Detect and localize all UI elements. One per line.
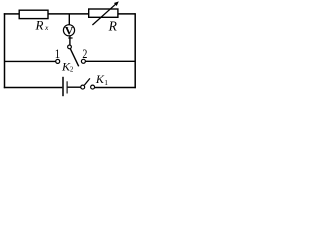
wire middle-right (86, 60, 136, 62)
wire bottom-right (95, 87, 136, 89)
battery short plate (66, 81, 68, 93)
wire top-middle segment (48, 13, 89, 15)
wire middle-left (5, 60, 56, 62)
svg-text:2: 2 (70, 65, 74, 73)
wire left vertical (4, 13, 6, 88)
switch K1 blade (84, 78, 90, 85)
svg-text:V: V (65, 23, 74, 37)
switch K1 right contact (91, 85, 95, 89)
switch K2 pivot (68, 45, 72, 49)
terminal tick (68, 37, 72, 39)
wire top-right segment (118, 13, 136, 15)
svg-text:R: R (35, 17, 44, 32)
svg-text:1: 1 (55, 47, 60, 61)
battery long plate (62, 77, 64, 96)
svg-text:x: x (44, 23, 49, 32)
wire top-left segment (4, 13, 20, 15)
switch K2 blade (70, 49, 78, 67)
voltmeter U1 (63, 25, 74, 36)
wire voltmeter to pivot (69, 36, 71, 45)
node contact 1 (56, 59, 60, 63)
svg-text:R: R (108, 18, 118, 33)
wire right vertical (134, 13, 136, 88)
svg-text:1: 1 (104, 78, 108, 87)
rheostat arrow (92, 4, 116, 25)
resistor Rx (19, 10, 48, 18)
switch K1 left contact (81, 85, 85, 89)
rheostat R box (89, 9, 118, 17)
svg-text:2: 2 (82, 48, 87, 61)
wire voltmeter stub (68, 14, 70, 25)
wire battery to K1 (68, 86, 81, 88)
node contact 2 (81, 59, 85, 63)
wire bottom-left (4, 87, 63, 89)
